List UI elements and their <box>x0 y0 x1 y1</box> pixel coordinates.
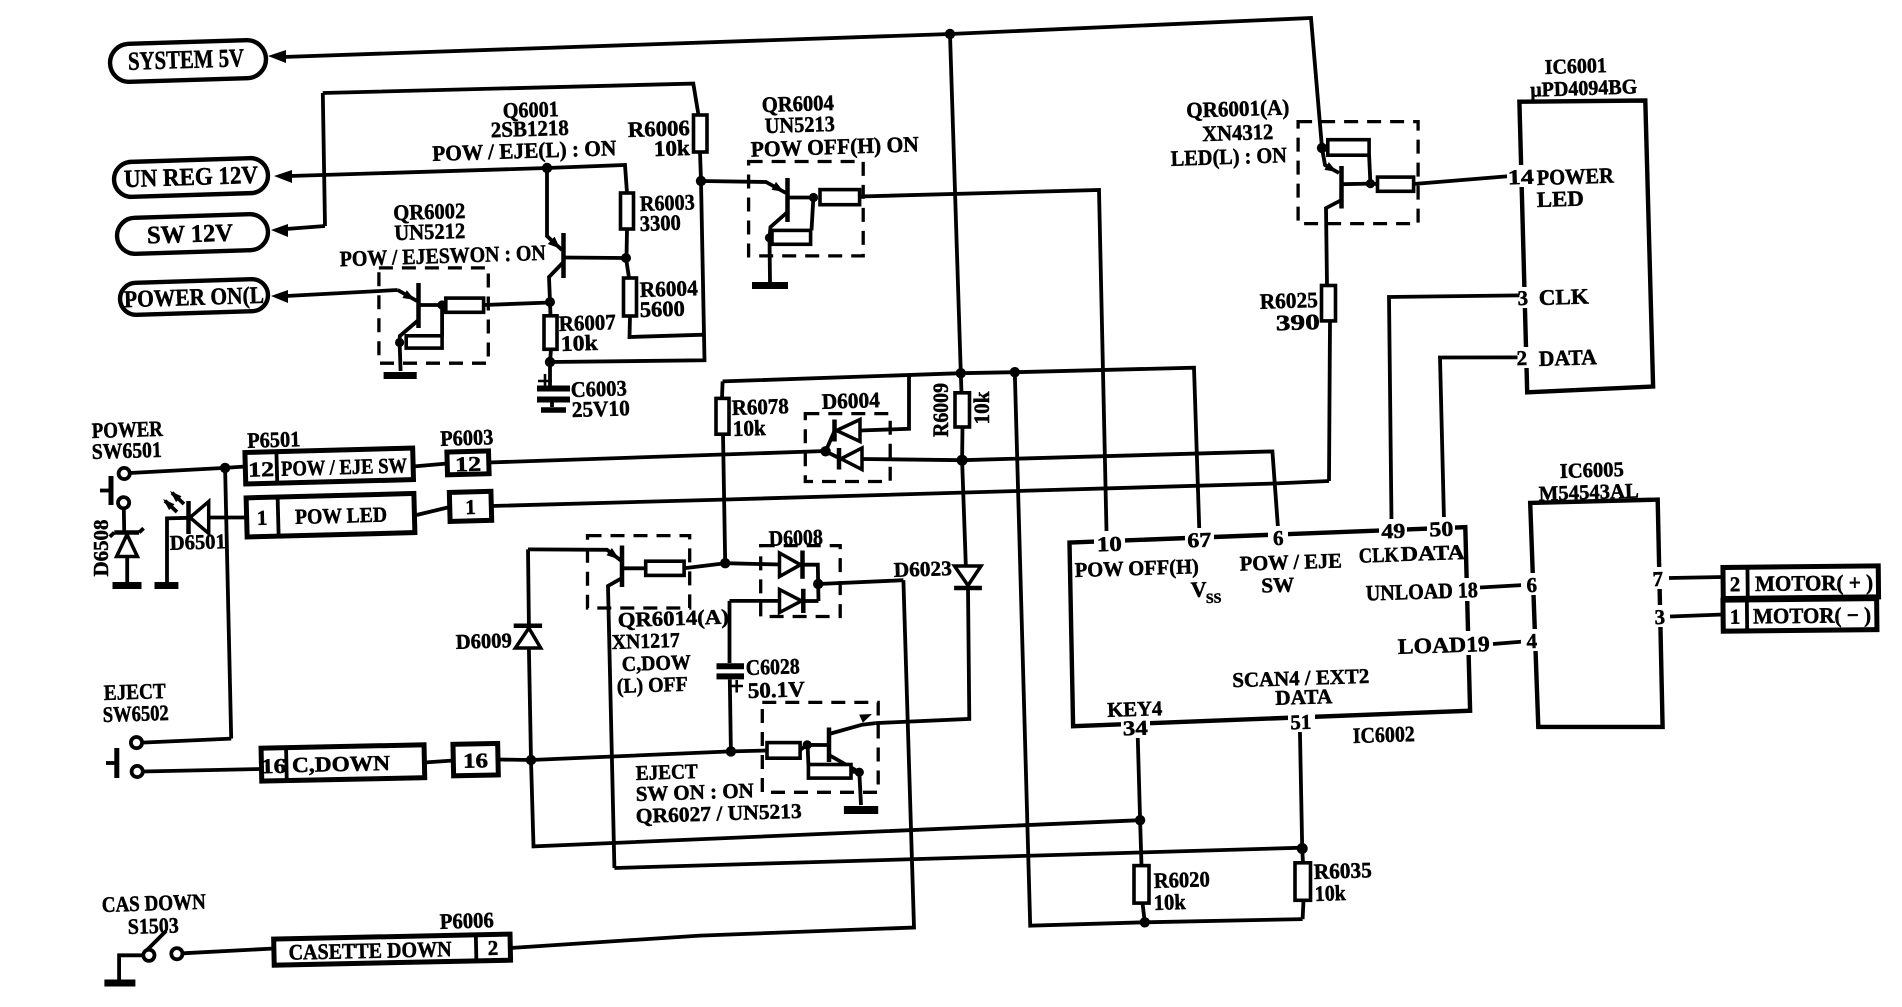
arrow into SYSTEM 5V <box>268 50 286 63</box>
pin 6 IC6002 <box>1268 526 1288 550</box>
node Q6001 emitter junction <box>542 163 552 173</box>
wire D6009 line to pin 34 <box>531 760 1140 846</box>
node POW/EJE SW junction <box>220 463 230 473</box>
node R6009 top <box>956 368 966 378</box>
diode D6008 dual <box>725 546 840 617</box>
svg-text:10: 10 <box>1096 532 1122 557</box>
resistor R6009 <box>928 373 994 460</box>
wire QR6001 output to IC6001 pin 14 <box>1414 176 1511 184</box>
pin 67 IC6002 <box>1185 528 1214 553</box>
power label SW 12V <box>116 214 268 255</box>
transistor QR6004 labels <box>750 90 919 162</box>
wire C-DOWN line to QR6027 <box>531 751 767 761</box>
svg-text:3: 3 <box>1654 605 1665 629</box>
arrow into POWER ON(L <box>271 290 288 303</box>
svg-text:S1503: S1503 <box>127 912 179 939</box>
connector P6003 pin 1 <box>449 491 491 521</box>
svg-text:5600: 5600 <box>639 296 685 322</box>
svg-text:MOTOR( + ): MOTOR( + ) <box>1755 570 1873 596</box>
connector MOTOR(+) <box>1723 566 1879 599</box>
arrow into UN REG 12V <box>274 170 292 183</box>
ground D6508 <box>113 582 142 589</box>
wire P6501-12 to P6003-12 <box>413 464 447 467</box>
wire SYSTEM 5V rail <box>283 34 950 57</box>
svg-text:SW6502: SW6502 <box>102 700 169 727</box>
wire IC6005 pin7 to motor connector <box>1669 577 1723 578</box>
ground D6501 <box>155 582 179 589</box>
resistor R6003 <box>621 189 696 258</box>
svg-text:MOTOR( − ): MOTOR( − ) <box>1753 602 1871 628</box>
ground QR6002 <box>384 372 417 379</box>
transistor QR6002 digital <box>379 268 550 371</box>
wire pull-up drop to bottom rail <box>1015 372 1303 926</box>
wire SW6502 top to POW/EJE vertical <box>142 739 231 743</box>
svg-text:LOAD19: LOAD19 <box>1397 631 1490 659</box>
svg-text:67: 67 <box>1187 528 1212 553</box>
pin 3 IC6005 <box>1649 605 1671 629</box>
switch S1503 <box>119 931 182 980</box>
resistor R6007 <box>544 302 616 362</box>
diode D6501 LED <box>167 501 247 582</box>
svg-text:16: 16 <box>463 748 488 773</box>
svg-text:10k: 10k <box>653 135 691 161</box>
svg-text:390: 390 <box>1275 309 1320 335</box>
svg-text:μPD4094BG: μPD4094BG <box>1530 74 1638 101</box>
pin 14 IC6001 <box>1507 163 1615 212</box>
transistor QR6001 digital <box>1298 122 1418 286</box>
svg-text:2: 2 <box>1516 346 1527 370</box>
svg-text:49: 49 <box>1381 519 1406 544</box>
transistor QR6014 labels <box>611 605 729 698</box>
svg-text:SYSTEM 5V: SYSTEM 5V <box>128 43 245 76</box>
wire emitter node to R6003 top <box>547 165 627 193</box>
svg-text:CLK: CLK <box>1358 542 1399 567</box>
svg-text:D6501: D6501 <box>169 529 226 555</box>
svg-text:10k: 10k <box>1314 880 1346 906</box>
svg-text:P6006: P6006 <box>439 907 494 934</box>
wire POW/EJE SW line to IC6002 pin 6 <box>962 451 1278 528</box>
wire SYSTEM5V distribution rail <box>723 368 1200 530</box>
transistor QR6001 labels <box>1170 94 1289 170</box>
wire POWER ON(L to QR6002 input <box>286 290 398 296</box>
power label SYSTEM 5V <box>109 40 266 83</box>
wire QR6014 collector drop <box>608 578 622 868</box>
wire CASETTE DOWN to D6008 vertical <box>510 580 914 948</box>
svg-text:4: 4 <box>1526 629 1538 653</box>
connector P6501 pin12 POW/EJE SW box <box>245 448 414 484</box>
power label UN REG 12V <box>114 158 269 198</box>
svg-text:10k: 10k <box>969 391 994 425</box>
svg-text:DATA: DATA <box>1400 540 1466 566</box>
IC IC6001 labels <box>1530 53 1638 102</box>
node Q6001 base node <box>621 253 631 263</box>
svg-text:SW 12V: SW 12V <box>147 220 234 250</box>
wire SW6501 to P6501 junction <box>130 467 246 474</box>
svg-text:POW LED: POW LED <box>295 503 388 529</box>
svg-text:P6003: P6003 <box>440 424 494 451</box>
svg-text:SW: SW <box>1261 572 1295 597</box>
svg-text:SW6501: SW6501 <box>91 437 162 464</box>
connector P6003 pin 12 <box>447 451 489 477</box>
svg-text:1: 1 <box>256 506 267 530</box>
wire P6501-1 to P6003-1 <box>414 507 449 516</box>
pin 7 IC6005 <box>1647 567 1669 591</box>
connector C-DOWN 16 box <box>261 745 425 781</box>
transistor Q6001 <box>547 168 626 302</box>
wire DATA IC6001 pin2 to IC6002 pin50 <box>1440 357 1518 520</box>
svg-text:1: 1 <box>1730 605 1741 629</box>
resistor R6006 <box>627 115 707 181</box>
svg-text:12: 12 <box>248 457 275 482</box>
capacitor C6028 <box>717 601 806 752</box>
svg-text:D6508: D6508 <box>89 520 113 577</box>
svg-text:DATA: DATA <box>1538 344 1597 371</box>
wire SYSTEM 5V drop to R6009 <box>950 34 961 373</box>
svg-text:10k: 10k <box>1153 889 1186 915</box>
svg-text:12: 12 <box>455 452 482 477</box>
svg-text:1: 1 <box>465 495 476 519</box>
IC IC6005 labels <box>1538 457 1639 506</box>
IC6002 internal labels <box>1074 540 1492 748</box>
svg-text:3: 3 <box>1517 286 1528 310</box>
resistor R6020 <box>1134 732 1210 923</box>
IC IC6002 box <box>1070 527 1471 726</box>
diode D6004 dual <box>805 376 962 482</box>
switch SW6501 labels <box>91 416 164 464</box>
svg-text:LED: LED <box>1536 186 1584 212</box>
connector pin 16 box <box>453 743 498 775</box>
svg-text:POW / EJE SW: POW / EJE SW <box>281 453 408 480</box>
wire POW/EJE SW drop to EJECT switch <box>225 468 231 739</box>
LED arrows D6501 <box>163 491 184 512</box>
svg-text:D6009: D6009 <box>455 628 512 654</box>
svg-text:UNLOAD 18: UNLOAD 18 <box>1365 577 1478 606</box>
pin 34 IC6002 <box>1121 715 1150 740</box>
svg-text:6: 6 <box>1526 573 1537 597</box>
svg-text:2: 2 <box>487 936 498 960</box>
wire D6008 out to CASETTE vertical <box>818 580 903 584</box>
wire SW6502 bottom to C-DOWN box <box>143 769 262 772</box>
connector MOTOR(-) <box>1723 599 1877 632</box>
svg-text:KEY4: KEY4 <box>1107 696 1163 722</box>
node QR6004 input junction <box>696 176 706 186</box>
ground S1503 <box>104 980 135 987</box>
pin 2 IC6001 <box>1512 344 1597 371</box>
svg-text:POW OFF(H): POW OFF(H) <box>1074 554 1199 582</box>
svg-text:D6023: D6023 <box>893 556 952 582</box>
node R6007 bottom C6003 node <box>545 357 555 367</box>
wire UN REG 12V to Q6001 emitter node <box>290 168 547 176</box>
diode D6508 <box>110 508 144 582</box>
wire LOAD19 to IC6005 pin4 <box>1493 642 1524 645</box>
wire C-DOWN box to 16 <box>424 761 453 763</box>
svg-text:50: 50 <box>1429 517 1454 542</box>
svg-text:SS: SS <box>1206 592 1222 607</box>
node SYSTEM 5V junction <box>945 29 955 39</box>
svg-text:10k: 10k <box>732 415 766 441</box>
svg-text:6: 6 <box>1273 526 1284 550</box>
resistor R6078 <box>716 381 789 563</box>
connector CASETTE DOWN box <box>274 934 511 965</box>
wire POW/EJE SW line to D6004 <box>489 451 826 463</box>
transistor QR6014 digital <box>528 536 725 608</box>
power label POWER ON(L <box>120 279 269 316</box>
pin 3 IC6001 <box>1513 283 1589 310</box>
wire 16 to D6009 node <box>498 758 531 762</box>
node D6009 C-DOWN junction <box>526 755 536 765</box>
resistor R6025 <box>1259 286 1335 482</box>
wire SW 12V riser <box>323 93 325 226</box>
svg-text:CASETTE DOWN: CASETTE DOWN <box>288 936 452 964</box>
pin 51 IC6002 <box>1288 710 1315 735</box>
wire POW LED line to R6025 bottom <box>491 481 1329 506</box>
node R6020 bottom <box>1140 917 1150 927</box>
transistor QR6027 labels <box>635 759 802 828</box>
node QR6014 output R6078 D6008 <box>720 558 730 568</box>
svg-text:POW OFF(H) ON: POW OFF(H) ON <box>750 131 919 161</box>
switch S1503 labels <box>101 889 206 939</box>
resistor R6035 <box>1295 714 1372 919</box>
IC IC6005 box <box>1530 500 1662 727</box>
switch SW6501 <box>100 468 130 508</box>
switch SW6502 <box>106 737 143 778</box>
resistor R6004 <box>624 258 705 337</box>
transistor Q6001 labels <box>432 96 617 166</box>
svg-text:10k: 10k <box>560 330 599 356</box>
wire IC6005 pin3 to motor connector <box>1670 615 1723 617</box>
wire S1503 to CASETTE DOWN box <box>183 949 274 954</box>
pin 6 IC6005 <box>1521 573 1543 597</box>
ground QR6027 <box>844 806 878 814</box>
arrow into SW 12V <box>271 224 288 237</box>
svg-text:50.1V: 50.1V <box>747 676 805 703</box>
svg-text:25V10: 25V10 <box>571 395 630 422</box>
connector P6501 pin1 POW LED box <box>246 493 415 536</box>
wire SYSTEM 5V rail to QR6001 emitter <box>950 18 1322 148</box>
pin 10 IC6002 <box>1094 531 1125 556</box>
pin 50 IC6002 <box>1427 517 1455 542</box>
svg-text:DATA: DATA <box>1275 684 1334 710</box>
svg-text:14: 14 <box>1507 165 1534 190</box>
transistor QR6027 digital <box>762 702 878 805</box>
transistor QR6004 digital <box>701 162 863 283</box>
svg-text:(L) OFF: (L) OFF <box>616 672 688 698</box>
node pin34 R6020 top <box>1135 815 1145 825</box>
node pull-up rail junction <box>1010 367 1020 377</box>
svg-text:D6004: D6004 <box>821 387 880 414</box>
transistor QR6002 labels <box>339 198 546 271</box>
svg-text:C,DOWN: C,DOWN <box>292 751 391 777</box>
ground QR6004 <box>752 282 788 289</box>
IC IC6001 box <box>1519 101 1653 393</box>
pin 49 IC6002 <box>1379 519 1407 544</box>
capacitor C6003 <box>537 362 630 422</box>
svg-text:LED(L) : ON: LED(L) : ON <box>1170 142 1287 171</box>
svg-text:UN REG 12V: UN REG 12V <box>124 162 259 193</box>
wire second rail to R6006 <box>323 84 699 115</box>
svg-text:16: 16 <box>261 754 286 779</box>
node R6009 bottom pin6 line <box>957 455 968 466</box>
switch SW6502 labels <box>102 678 169 727</box>
svg-text:51: 51 <box>1290 710 1312 735</box>
pin 4 IC6005 <box>1521 629 1543 653</box>
wire UNLOAD18 to IC6005 pin6 <box>1480 585 1524 588</box>
wire collector line to pin 51 <box>614 848 1302 868</box>
diode D6023 <box>876 460 982 723</box>
wire SW 12V stub <box>286 226 325 229</box>
svg-text:POWER ON(L: POWER ON(L <box>124 283 265 313</box>
svg-text:R6009: R6009 <box>928 383 953 437</box>
svg-text:7: 7 <box>1652 567 1663 591</box>
wire R6006 node to base filter <box>550 181 705 362</box>
svg-text:3300: 3300 <box>639 210 681 236</box>
wire QR6004 output to IC6002 pin10 <box>860 190 1107 531</box>
node Q6001 collector node <box>545 297 555 307</box>
wire CLK IC6001 pin3 to IC6002 pin49 <box>1389 295 1519 522</box>
svg-text:V: V <box>1190 577 1207 602</box>
svg-text:2: 2 <box>1730 572 1741 596</box>
svg-text:QR6001(A): QR6001(A) <box>1186 94 1290 122</box>
svg-text:UN5212: UN5212 <box>394 218 466 245</box>
diode D6009 <box>514 549 542 760</box>
node C6028 bottom <box>726 746 736 756</box>
svg-text:IC6002: IC6002 <box>1352 721 1415 748</box>
svg-text:CLK: CLK <box>1538 283 1589 310</box>
svg-text:POW / EJE: POW / EJE <box>1239 548 1342 575</box>
